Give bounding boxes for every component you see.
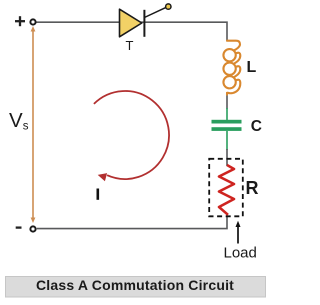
svg-text:Class A Commutation Circuit: Class A Commutation Circuit bbox=[36, 277, 234, 293]
plus terminal sign bbox=[15, 16, 25, 26]
node terminal bottom bbox=[30, 226, 35, 231]
wire inductor to capacitor bbox=[226, 95, 228, 109]
wire: + terminal to thyristor to top-right corner, down to inductor bbox=[37, 22, 228, 41]
current loop arrow I bbox=[94, 91, 169, 181]
svg-text:L: L bbox=[247, 59, 257, 76]
thyristor T bbox=[120, 4, 172, 37]
caption band bbox=[6, 277, 266, 298]
svg-text:Load: Load bbox=[224, 245, 257, 262]
svg-text:R: R bbox=[246, 178, 259, 198]
load arrow bbox=[236, 221, 241, 244]
node terminal top bbox=[30, 19, 35, 24]
svg-text:C: C bbox=[251, 118, 262, 135]
label I bbox=[97, 189, 100, 200]
capacitor C bbox=[212, 120, 242, 131]
load dashed box bbox=[209, 159, 243, 217]
source arrow Vs bbox=[31, 26, 36, 223]
wire: resistor down and bottom rail back to - terminal bbox=[37, 215, 227, 229]
wire capacitor lead green bottom bbox=[226, 131, 228, 150]
minus terminal sign bbox=[16, 226, 22, 228]
inductor L bbox=[223, 41, 240, 95]
wire capacitor to resistor bbox=[226, 149, 228, 166]
svg-text:T: T bbox=[126, 38, 134, 53]
resistor R bbox=[219, 165, 234, 215]
wire capacitor lead green top bbox=[226, 108, 228, 120]
